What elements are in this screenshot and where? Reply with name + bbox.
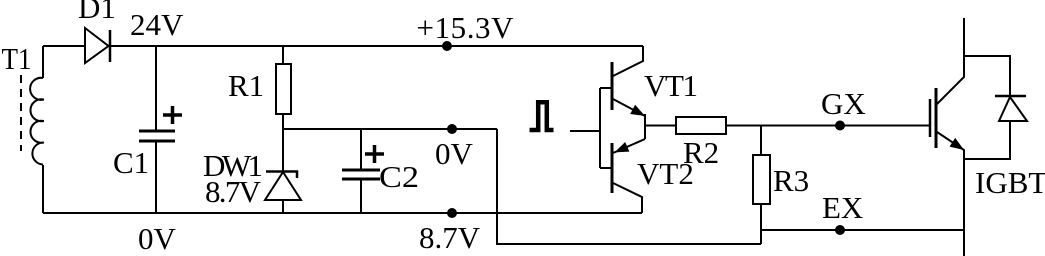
wire top rail left of D1 <box>43 45 85 47</box>
capacitor C2 plates <box>342 170 380 179</box>
svg-text:8.7V: 8.7V <box>205 174 262 209</box>
wire bottom rail 0V <box>43 212 642 214</box>
wire R2 to IGBT gate GX line <box>726 125 930 127</box>
wire pulse input to bases <box>570 130 600 132</box>
resistor R3 body <box>753 155 770 204</box>
pulse input symbol <box>530 102 554 130</box>
svg-text:IGBT: IGBT <box>975 165 1045 200</box>
wire R3 top lead <box>760 126 762 156</box>
wire EX line <box>761 229 964 231</box>
transistor VT1 emitter <box>613 99 645 116</box>
wire VT2 base lead <box>600 167 612 169</box>
wire C1 top <box>155 46 157 131</box>
wire R1 bottom to DW1 <box>282 114 284 172</box>
zener diode DW1 triangle <box>265 172 301 200</box>
freewheel diode triangle <box>999 97 1027 121</box>
arrowhead IGBT emitter <box>950 138 965 150</box>
transistor VT2 emitter <box>613 139 645 153</box>
IGBT collector lead <box>937 18 964 104</box>
svg-text:24V: 24V <box>130 7 184 42</box>
transistor VT1 collector <box>613 46 643 76</box>
wire T1 bottom vertical <box>42 165 44 213</box>
svg-text:C2: C2 <box>379 159 419 194</box>
svg-text:D1: D1 <box>78 0 116 25</box>
wire emitter junction vertical <box>644 114 646 139</box>
svg-text:0V: 0V <box>435 136 474 171</box>
svg-text:GX: GX <box>821 86 866 121</box>
transistor VT2 base bar <box>611 143 614 193</box>
node dot 0V <box>447 124 457 134</box>
node dot GX <box>835 121 845 131</box>
freewheel diode bar <box>995 95 1026 98</box>
capacitor C1 polarity plus <box>163 106 182 124</box>
zener diode DW1 cathode bar <box>266 172 297 179</box>
svg-text:0V: 0V <box>138 221 177 256</box>
diode D1 cathode bar <box>109 30 112 62</box>
wire R1 top lead <box>282 46 284 64</box>
transistor VT1 base bar <box>611 62 614 110</box>
wire top rail 24V to VT1 collector corner <box>110 45 643 47</box>
node dot 8.7V rail <box>447 208 457 218</box>
svg-text:T1: T1 <box>2 41 32 76</box>
wire 0V down and across to R3 bottom <box>497 129 761 244</box>
capacitor C1 plates <box>139 131 175 141</box>
resistor R2 body <box>676 117 726 134</box>
wire DW1 bottom lead <box>282 200 284 213</box>
svg-text:VT1: VT1 <box>644 68 698 103</box>
resistor R1 body <box>276 64 291 114</box>
wire C2 bottom lead <box>360 179 362 213</box>
svg-text:R3: R3 <box>773 163 809 198</box>
wire C2 top lead <box>360 129 362 170</box>
svg-text:R1: R1 <box>228 68 264 103</box>
transistor VT2 collector <box>613 183 642 213</box>
wire base bus vertical <box>599 88 601 168</box>
wire R3 bottom lead <box>760 204 762 244</box>
transformer T1 core dashed line <box>20 75 22 151</box>
wire 0V node line <box>283 128 497 130</box>
node dot +15.3V <box>442 41 452 51</box>
wire T1 top vertical <box>42 46 44 78</box>
IGBT channel bar <box>935 88 938 148</box>
arrowhead VT1 emitter <box>630 105 645 116</box>
wire freewheel diode bottom branch <box>964 121 1010 159</box>
wire VT1 base lead <box>600 87 612 89</box>
diode D1 triangle <box>85 28 109 63</box>
IGBT gate bar <box>929 99 932 137</box>
node dot EX <box>835 225 845 235</box>
wire C1 bottom <box>155 141 157 213</box>
arrowhead VT2 emitter <box>615 142 630 152</box>
svg-text:8.7V: 8.7V <box>419 220 481 255</box>
svg-text:EX: EX <box>822 190 863 225</box>
transformer T1 winding <box>30 78 44 165</box>
capacitor C2 polarity plus <box>365 145 384 163</box>
wire driver output to R2 <box>645 125 676 127</box>
svg-text:+15.3V: +15.3V <box>417 10 515 45</box>
IGBT emitter lead <box>937 132 964 256</box>
svg-text:C1: C1 <box>113 145 149 180</box>
wire freewheel diode top branch <box>964 56 1010 96</box>
svg-text:R2: R2 <box>683 135 719 170</box>
